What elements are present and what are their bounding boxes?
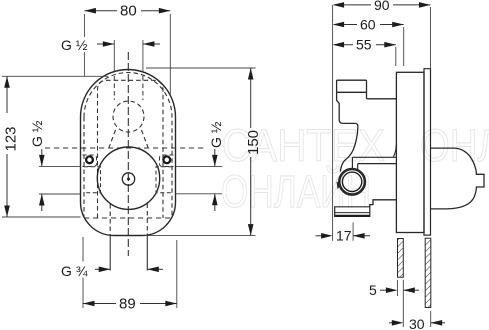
left extension line (body front face) xyxy=(332,5,334,241)
dim 90 arrows xyxy=(333,2,345,8)
outlet inner circle xyxy=(342,172,361,191)
svg-text:30: 30 xyxy=(409,316,425,330)
body top block xyxy=(337,80,367,92)
svg-text:G ½: G ½ xyxy=(208,121,224,148)
dim 123 line xyxy=(6,76,8,217)
dim 60 line xyxy=(334,24,404,26)
outlet pipe to plate bottom line xyxy=(358,163,397,165)
dim 89 arrows xyxy=(83,301,95,307)
inner dashed contour (recess) xyxy=(84,73,172,219)
dim 55 arrows xyxy=(333,42,345,48)
svg-text:123: 123 xyxy=(3,126,20,151)
dim 89 line xyxy=(83,303,177,305)
dim 150 arrows xyxy=(248,68,254,80)
dim 150 extension bottom xyxy=(146,235,256,237)
screw boss dashed box left xyxy=(83,155,97,167)
outlet thick ring xyxy=(339,169,365,195)
right pipe hatched xyxy=(425,238,431,307)
bottom port solid lines xyxy=(110,236,147,271)
bell housing xyxy=(431,148,485,209)
dim 17 arrows and text xyxy=(316,235,323,237)
dim 80 line xyxy=(84,10,170,12)
dim 123 extension bottom xyxy=(2,216,81,218)
G1/2 top arrows xyxy=(97,43,114,45)
funnel dashed lines xyxy=(109,130,148,148)
dim 150 line xyxy=(250,68,252,236)
G1/2 top dim lines xyxy=(114,40,143,72)
clip wedge left of outlet xyxy=(337,182,342,190)
dim 55 line xyxy=(334,44,396,46)
center dot xyxy=(127,178,130,181)
dim 90 line xyxy=(334,4,430,6)
side port dashed box right xyxy=(156,167,172,193)
svg-text:89: 89 xyxy=(119,296,136,313)
screw left xyxy=(86,156,93,163)
svg-text:80: 80 xyxy=(120,3,137,20)
top port dashed circle G1/2 xyxy=(113,101,144,132)
dashed horizontal line y=218 xyxy=(84,217,172,219)
G1/2 right extension lines xyxy=(176,166,222,193)
center small circle xyxy=(122,173,134,185)
body lower bulge to outlet xyxy=(340,123,358,171)
dim 90 extension right xyxy=(430,7,432,69)
svg-text:17: 17 xyxy=(336,228,352,244)
dim 80 extension right xyxy=(169,14,171,95)
svg-text:G ¾: G ¾ xyxy=(61,263,88,279)
svg-text:5: 5 xyxy=(369,282,377,298)
body left profile xyxy=(337,92,356,123)
dashed body box xyxy=(98,80,164,218)
outlet pipe to plate top line xyxy=(352,156,396,158)
G1/2 right arrows xyxy=(214,149,216,166)
svg-text:90: 90 xyxy=(374,0,390,13)
dim 60 extension right xyxy=(403,27,405,66)
svg-text:G ½: G ½ xyxy=(61,37,88,53)
front strip xyxy=(424,69,431,235)
svg-text:150: 150 xyxy=(245,130,262,155)
bottom port dashed lines xyxy=(110,204,147,236)
dim 80 extension left xyxy=(83,14,85,76)
vertical center line xyxy=(127,52,129,256)
svg-text:60: 60 xyxy=(360,16,376,32)
dim 55 extension right xyxy=(395,47,397,66)
oval escutcheon plate outline xyxy=(81,70,176,236)
outlet neck xyxy=(352,157,357,170)
dim 5 arrows and text xyxy=(380,289,387,291)
side port dashed box left xyxy=(84,167,101,193)
body top block internal line xyxy=(337,91,367,93)
left pipe hatched xyxy=(398,239,404,278)
svg-text:G ½: G ½ xyxy=(29,120,45,147)
dim 60 arrows xyxy=(333,22,345,28)
screw boss dashed box right xyxy=(160,155,174,167)
wall plate box xyxy=(396,72,424,232)
lower bracket to plate xyxy=(370,200,397,207)
G1/2 left extension lines xyxy=(39,166,81,194)
body right edge to top bracket xyxy=(367,92,397,99)
dim 17 extension xyxy=(352,222,354,240)
svg-text:55: 55 xyxy=(356,37,372,53)
dim 30 arrows and text xyxy=(389,322,392,324)
dim 89 extension left xyxy=(82,237,84,308)
G3/4 arrows xyxy=(95,268,110,270)
body foot internal line xyxy=(335,212,370,214)
body foot outline xyxy=(335,207,370,217)
valve cartridge circle xyxy=(97,147,159,209)
pipe-plate fillet xyxy=(393,145,396,158)
dashed horizontal line y=148 xyxy=(45,147,204,149)
dim 5 extension right xyxy=(402,280,404,327)
dim 80 arrows xyxy=(84,8,96,14)
G1/2 left arrows xyxy=(41,149,43,166)
dim 89 extension right xyxy=(176,240,178,308)
screw right xyxy=(163,156,170,163)
dim 150 extension top xyxy=(146,67,256,69)
dim 30 extension right xyxy=(430,311,432,327)
body foot thick bottom edge xyxy=(335,215,370,217)
dim 123 arrows xyxy=(4,76,10,88)
dim 123 extension top xyxy=(2,75,108,77)
dim 5 extension left xyxy=(396,280,398,296)
